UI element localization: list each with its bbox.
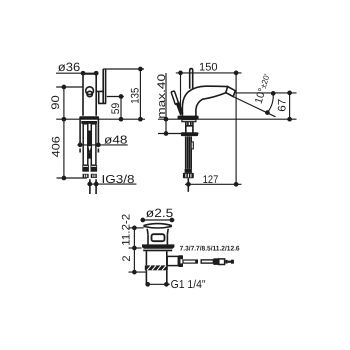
- lever-body junction wedge: [176, 102, 184, 115]
- svg-text:7.3/7.7/8.5/11.2/12.6: 7.3/7.7/8.5/11.2/12.6: [180, 246, 240, 253]
- dimension 90: extension line at handle height: [56, 86, 83, 88]
- dimension line ø36: [56, 72, 98, 74]
- drain bottom tube: [146, 270, 166, 284]
- upper shank: [186, 122, 193, 133]
- deck line (counter top): [158, 118, 297, 120]
- escutcheon: [178, 116, 199, 120]
- drain body upper: [148, 234, 167, 245]
- hose tails: [90, 179, 96, 194]
- packing nut: [178, 255, 183, 267]
- pop-up rod: adjuster block: [213, 258, 218, 265]
- spout tip (aerator end): [226, 87, 236, 97]
- dimension 67 vertical line: [289, 93, 291, 119]
- svg-text:G1 1/4": G1 1/4": [171, 279, 206, 291]
- supply hose left: [83, 124, 88, 165]
- dimension ø48: line through dots: [77, 144, 101, 146]
- shank outer tube stubs: [80, 149, 98, 153]
- dimension 135: vertical line: [139, 69, 141, 119]
- drain cap dome: [143, 224, 172, 226]
- handle knob ring: [86, 87, 94, 95]
- angle arc 10 degrees: [267, 93, 273, 112]
- side boss for rod: [167, 256, 178, 265]
- flange lower lip: [143, 250, 172, 252]
- escutcheon skirt: [182, 120, 196, 122]
- svg-text:59: 59: [110, 103, 122, 115]
- square hole in body: [152, 234, 165, 241]
- hose connector: [185, 169, 192, 173]
- hose tail: [187, 178, 189, 192]
- dimension 59: vertical line: [120, 97, 122, 120]
- escutcheon base plate: [79, 116, 99, 119]
- deck line (counter surface, left figure): [56, 118, 145, 120]
- supply hose right: [91, 124, 96, 165]
- shank outer tube lines: [80, 119, 98, 147]
- dimension G1 1/4: dots: [146, 283, 169, 285]
- dimension max.40 vertical line: [165, 73, 167, 134]
- hose nuts: [83, 174, 89, 178]
- extension line from handle: [180, 73, 182, 115]
- pop-up rod: second segment: [201, 260, 213, 263]
- faucet body and spout outer curve: [182, 86, 227, 116]
- left dimension vertical line: [133, 228, 135, 272]
- drain cap rim: [143, 226, 172, 228]
- svg-text:2: 2: [121, 256, 133, 262]
- hose connector blocks: [82, 165, 89, 172]
- svg-text:150: 150: [199, 62, 218, 74]
- svg-text:90: 90: [50, 95, 62, 110]
- dimension IG3/8: dots and leader: [87, 183, 99, 185]
- spout tip horizontal extension line: [236, 92, 296, 94]
- pop-up rod above body: [190, 69, 193, 89]
- counter underside line: [158, 133, 199, 135]
- dimension 406: vertical line: [63, 119, 65, 178]
- angled leader from spout tip: [233, 97, 275, 117]
- dimension line ø2.5: [141, 219, 175, 221]
- pop-up rod: first segment: [183, 260, 197, 263]
- dimension 59: extension line: [107, 96, 124, 98]
- svg-text:ø2.5: ø2.5: [146, 206, 174, 220]
- extension line at shank bottom: [57, 177, 88, 179]
- thread band with hatching: [145, 265, 168, 270]
- hose nut ribs: [84, 175, 85, 178]
- lower shank: [186, 136, 192, 169]
- dimension 90: vertical line: [63, 87, 65, 119]
- mounting stud between hoses: [88, 131, 92, 153]
- faucet body column (side view): [83, 73, 96, 116]
- svg-text:max.40: max.40: [156, 74, 168, 119]
- drain body lower: [146, 251, 166, 265]
- drain flange: [142, 244, 174, 248]
- extension lines left: [129, 227, 144, 229]
- drain neck: [147, 229, 168, 235]
- pop-up rod: tip: [225, 260, 227, 264]
- svg-text:11.2-2: 11.2-2: [120, 214, 132, 246]
- spout profile (edge-on): [96, 69, 106, 103]
- mounting nut under counter: [181, 132, 198, 136]
- side step on shank: [191, 142, 193, 149]
- lever handle: [171, 91, 179, 105]
- right vertical dimension line (150/127): [235, 73, 237, 184]
- svg-text:406: 406: [50, 136, 62, 157]
- shank top nut: [81, 121, 97, 124]
- svg-text:135: 135: [130, 88, 142, 104]
- svg-text:67: 67: [276, 99, 288, 112]
- stud notch: [88, 146, 91, 151]
- spout inner curve: [196, 93, 226, 116]
- dimension line 150: [176, 72, 242, 74]
- svg-text:ø36: ø36: [58, 60, 81, 74]
- dimension 135: top extension line: [103, 68, 144, 70]
